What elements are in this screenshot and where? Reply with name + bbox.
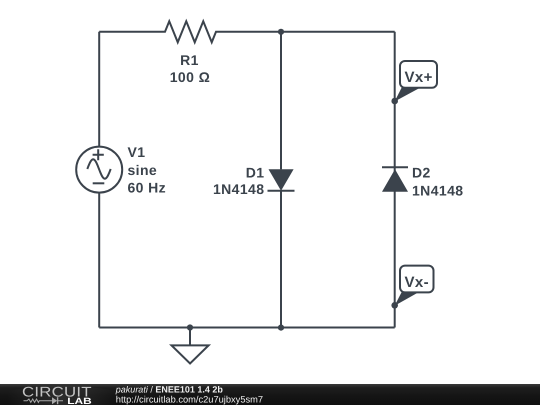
svg-text:Vx+: Vx+ — [404, 69, 432, 86]
svg-text:Vx-: Vx- — [405, 274, 430, 291]
svg-text:LAB: LAB — [67, 396, 92, 405]
svg-text:pakurati / ENEE101 1.4 2b: pakurati / ENEE101 1.4 2b — [115, 385, 224, 395]
svg-text:1N4148: 1N4148 — [213, 181, 264, 197]
svg-text:R1: R1 — [180, 52, 199, 68]
svg-text:60 Hz: 60 Hz — [128, 179, 167, 195]
svg-text:D1: D1 — [246, 165, 265, 181]
svg-text:sine: sine — [128, 162, 158, 178]
svg-text:100 Ω: 100 Ω — [170, 69, 210, 85]
svg-text:http://circuitlab.com/c2u7ujbx: http://circuitlab.com/c2u7ujbxy5sm7 — [116, 394, 263, 404]
svg-text:V1: V1 — [128, 144, 146, 160]
svg-text:1N4148: 1N4148 — [412, 182, 463, 198]
svg-text:D2: D2 — [412, 165, 431, 181]
